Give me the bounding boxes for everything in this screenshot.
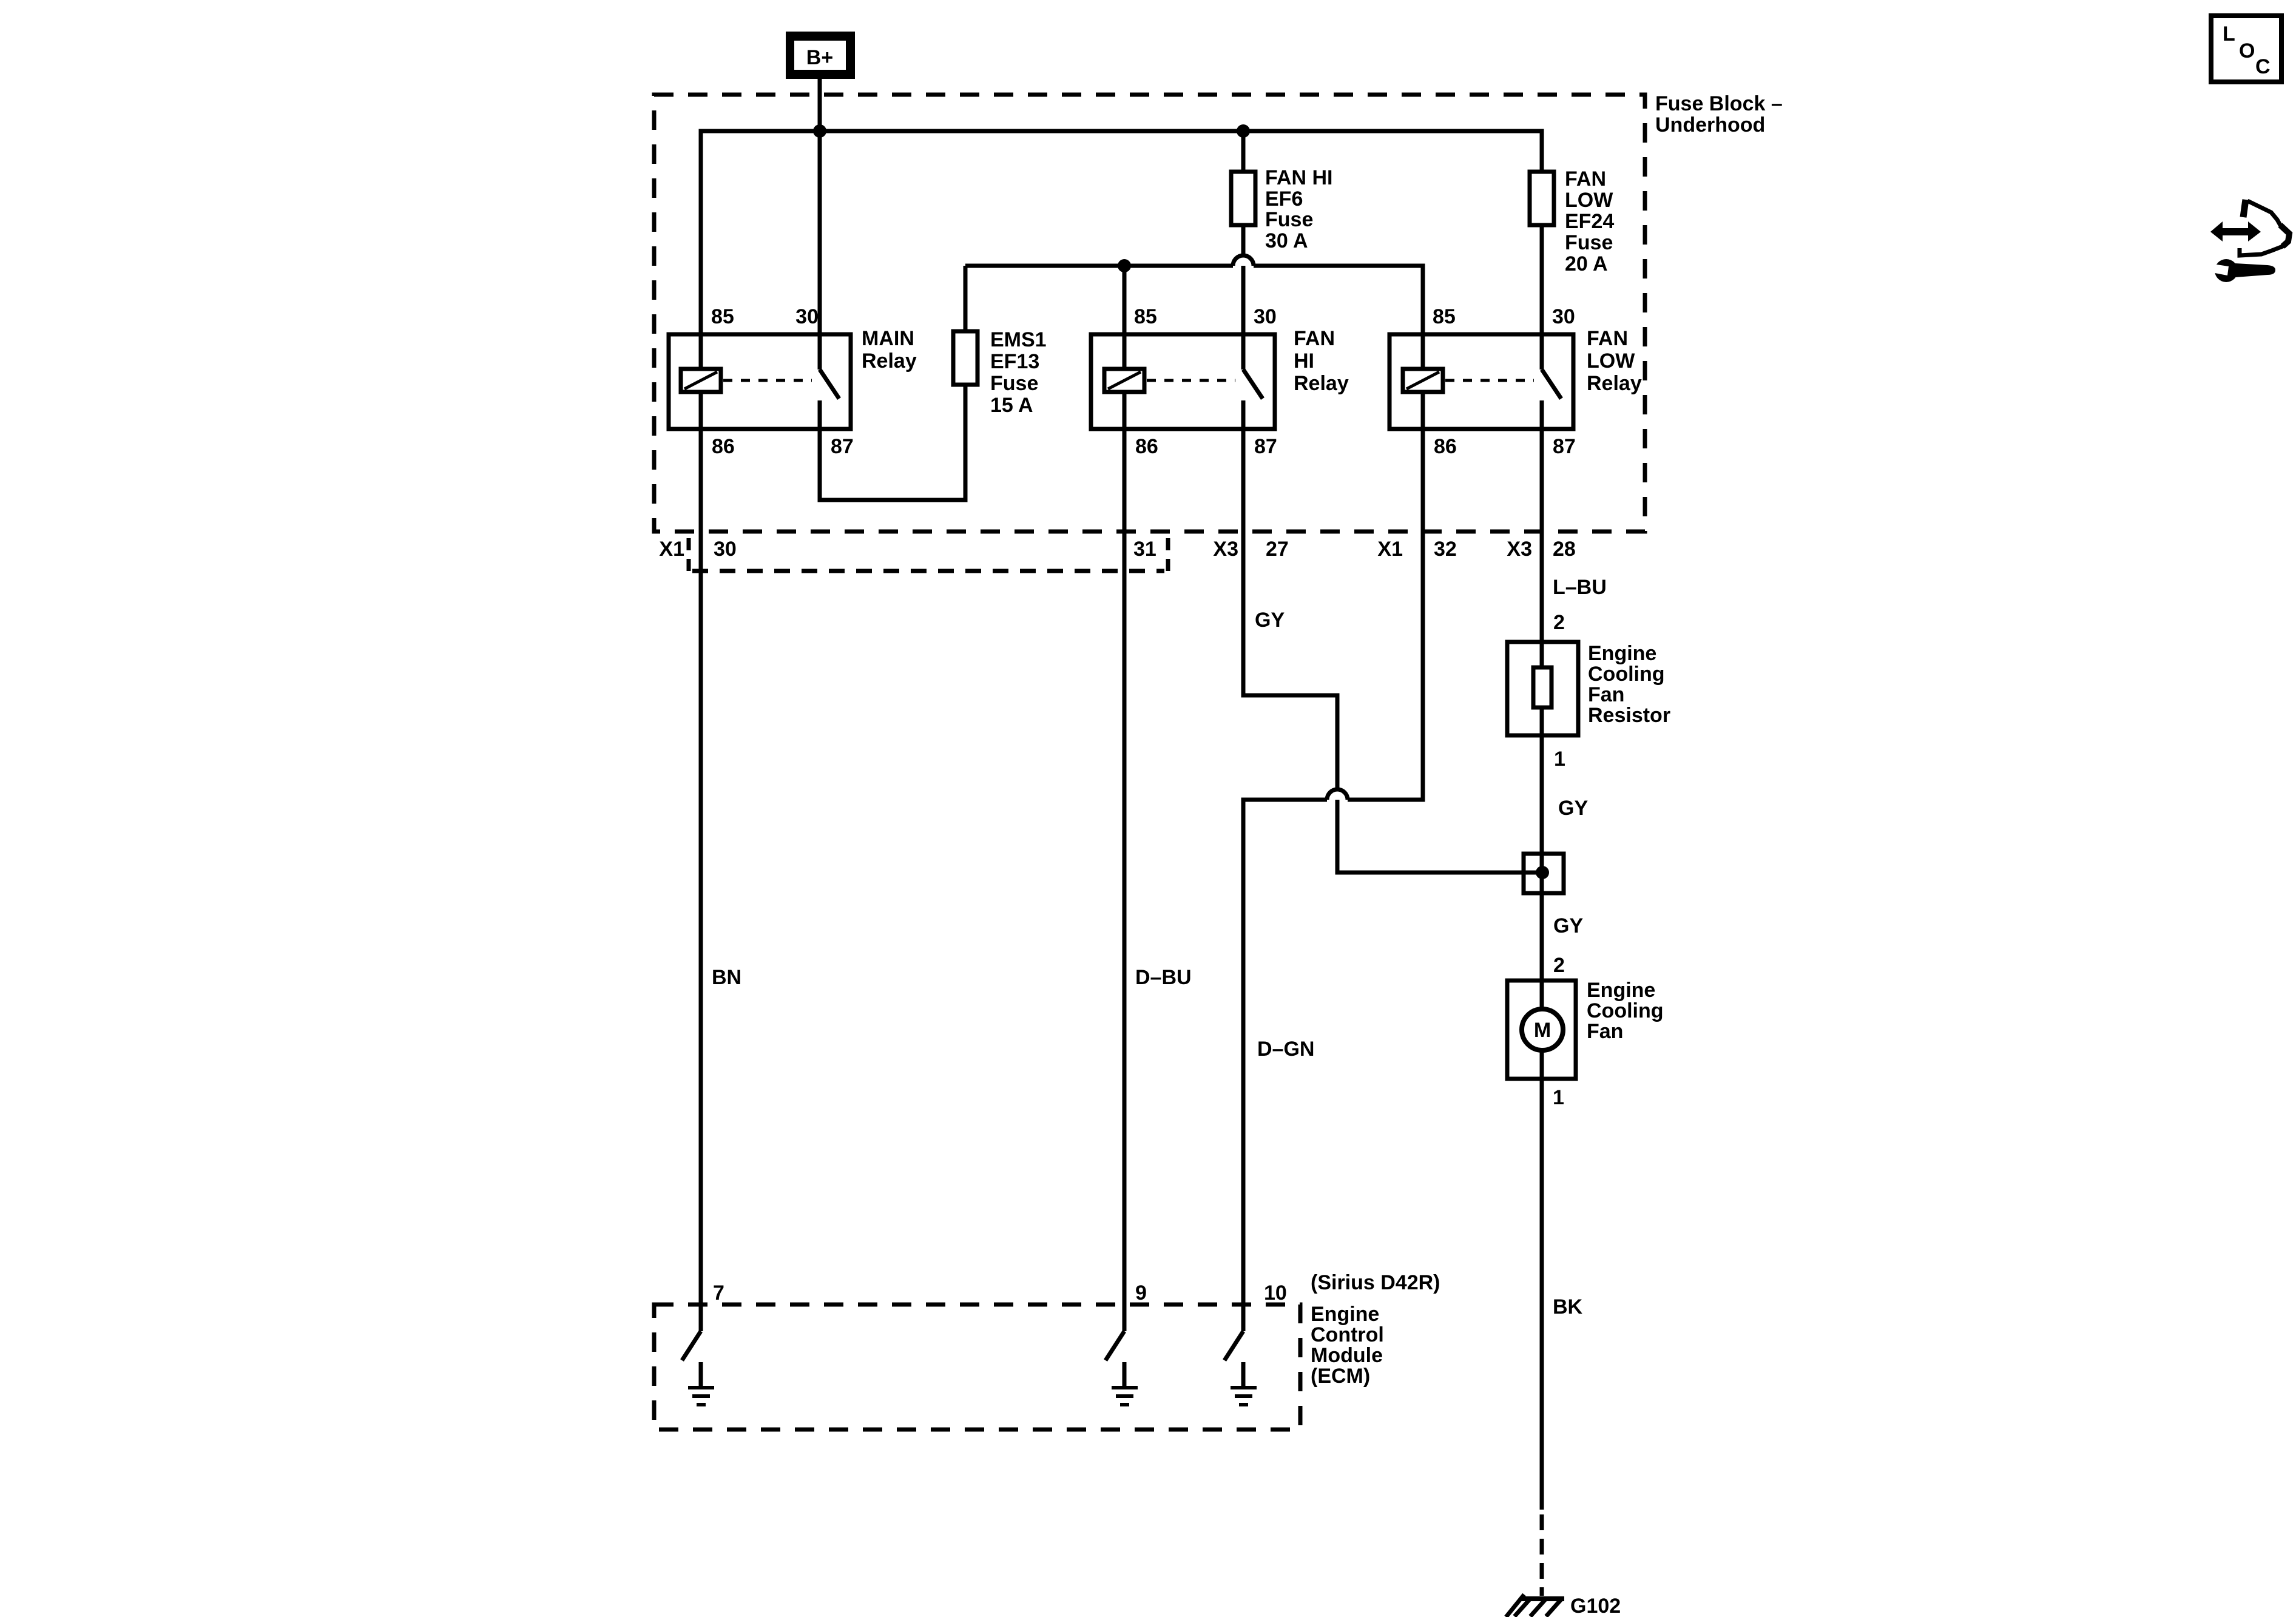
svg-text:30: 30 (714, 538, 737, 561)
svg-text:2: 2 (1553, 954, 1565, 977)
svg-text:Relay: Relay (1294, 372, 1349, 395)
wire main B+ bus with corners (701, 131, 1542, 369)
svg-text:X3: X3 (1507, 538, 1532, 561)
relay FAN HI box (1091, 334, 1275, 429)
node junction dot at B+ bus (813, 124, 826, 138)
motor circle M (1522, 1009, 1563, 1050)
svg-text:FAN: FAN (1587, 327, 1628, 350)
svg-text:GY: GY (1553, 914, 1583, 937)
svg-text:87: 87 (831, 435, 854, 458)
svg-text:LOW: LOW (1565, 189, 1613, 212)
wire fuse FAN HI feed from bus (1241, 131, 1246, 172)
svg-text:FAN: FAN (1294, 327, 1335, 350)
relay FAN HI coil (1104, 369, 1144, 392)
svg-text:20 A: 20 A (1565, 252, 1608, 275)
svg-text:FAN: FAN (1565, 167, 1606, 191)
splice connector box (1524, 854, 1564, 893)
svg-text:Underhood: Underhood (1655, 113, 1765, 137)
resistor element inside resistor box (1533, 667, 1551, 707)
wire B+ stem (818, 79, 822, 131)
svg-text:(ECM): (ECM) (1311, 1365, 1370, 1388)
svg-text:32: 32 (1434, 538, 1457, 561)
ECM internal switch and ground pin 10 (1224, 1331, 1257, 1405)
svg-text:Fan: Fan (1588, 683, 1624, 706)
svg-text:Relay: Relay (1587, 372, 1642, 395)
svg-text:L–BU: L–BU (1553, 576, 1607, 599)
svg-text:1: 1 (1554, 748, 1565, 771)
wire MAIN relay coil 85/86 line (BN to ECM pin 7) (699, 392, 703, 1331)
svg-text:30: 30 (795, 305, 819, 328)
svg-text:C: C (2255, 55, 2271, 78)
Engine Cooling Fan motor box (1507, 981, 1576, 1079)
svg-text:GY: GY (1558, 797, 1588, 820)
svg-text:30 A: 30 A (1265, 229, 1308, 252)
switch blade MAIN relay (820, 370, 839, 399)
wire coil feed rail y438 with hop over FAN HI line (965, 255, 1423, 369)
svg-text:30: 30 (1254, 305, 1277, 328)
svg-text:Fuse: Fuse (990, 372, 1038, 395)
svg-text:HI: HI (1294, 349, 1314, 373)
svg-text:Engine: Engine (1587, 979, 1655, 1002)
svg-text:Fuse Block –: Fuse Block – (1655, 92, 1783, 115)
relay FAN LOW coil (1403, 369, 1443, 392)
svg-text:86: 86 (712, 435, 735, 458)
svg-text:Cooling: Cooling (1587, 999, 1664, 1022)
svg-text:B+: B+ (806, 46, 833, 69)
relay FAN LOW coil-switch linkage dashes (1445, 379, 1534, 382)
outline arrow of tool icon (2243, 200, 2246, 217)
wire motor to ground BK solid part (1540, 1050, 1544, 1510)
svg-text:BN: BN (712, 966, 741, 989)
svg-text:BK: BK (1553, 1295, 1583, 1318)
svg-text:86: 86 (1135, 435, 1158, 458)
node junction dot bus to FAN HI fuse (1237, 124, 1250, 138)
svg-text:15 A: 15 A (990, 394, 1033, 417)
ECM internal switch and ground pin 7 (682, 1331, 714, 1405)
ground chassis G102 symbol (1506, 1595, 1564, 1617)
double headed arrow of tool icon (2210, 221, 2261, 241)
wire MAIN relay 87 to EMS1 fuse (820, 385, 965, 500)
wire MAIN relay pin30 drop (818, 131, 822, 370)
fuse FAN HI EF6 symbol (1231, 172, 1255, 225)
svg-text:(Sirius D42R): (Sirius D42R) (1311, 1271, 1440, 1294)
svg-text:27: 27 (1266, 538, 1289, 561)
svg-text:31: 31 (1133, 538, 1156, 561)
svg-text:X3: X3 (1213, 538, 1238, 561)
svg-text:Relay: Relay (862, 349, 917, 373)
svg-text:GY: GY (1255, 609, 1285, 632)
wire FAN HI relay 86 line (D-BU to ECM pin 9) (1123, 392, 1127, 1331)
fuse FAN LOW EF24 symbol (1530, 172, 1554, 225)
relay FAN HI coil-switch linkage dashes (1147, 379, 1235, 382)
wire FAN LOW fuse to relay 30 (1540, 225, 1544, 370)
svg-text:M: M (1534, 1019, 1551, 1042)
svg-text:2: 2 (1553, 611, 1565, 634)
node splice junction dot (1536, 866, 1549, 879)
svg-text:G102: G102 (1570, 1595, 1621, 1617)
svg-text:1: 1 (1553, 1086, 1564, 1109)
svg-text:L: L (2223, 22, 2235, 46)
wire FAN HI fuse to relay 30 (gap at hop) (1241, 225, 1246, 370)
wrench of tool icon (2215, 259, 2238, 282)
switch blade FAN HI relay (1243, 370, 1263, 399)
svg-text:Fuse: Fuse (1565, 231, 1613, 254)
fuse EMS1 EF13 symbol (953, 331, 977, 385)
svg-text:X1: X1 (659, 538, 684, 561)
wire FAN HI relay 85 coil feed (1123, 266, 1127, 369)
svg-text:85: 85 (1134, 305, 1157, 328)
svg-text:7: 7 (713, 1281, 724, 1305)
wire BK dashed part (1540, 1514, 1544, 1596)
relay FAN LOW box (1389, 334, 1573, 429)
svg-text:X1: X1 (1377, 538, 1403, 561)
svg-text:D–GN: D–GN (1257, 1038, 1314, 1061)
svg-text:Module: Module (1311, 1344, 1383, 1367)
svg-text:EF13: EF13 (990, 350, 1039, 373)
svg-text:O: O (2239, 39, 2255, 62)
svg-text:Engine: Engine (1588, 642, 1656, 665)
svg-text:EF6: EF6 (1265, 187, 1303, 211)
wire EMS1 fuse top to coil feed line (964, 266, 968, 331)
svg-text:9: 9 (1135, 1281, 1147, 1305)
svg-text:FAN HI: FAN HI (1265, 166, 1332, 189)
Engine Cooling Fan Resistor box (1507, 642, 1578, 735)
svg-text:Fan: Fan (1587, 1020, 1623, 1043)
LOC reference box icon (2211, 16, 2281, 82)
ECM dashed enclosure (654, 1305, 1300, 1430)
svg-text:MAIN: MAIN (862, 327, 914, 350)
interactive tool icon (double arrow, outline arrow, wrench) (2209, 200, 2289, 282)
node junction dot rail to FAN HI 85 (1118, 259, 1131, 272)
svg-text:85: 85 (1433, 305, 1456, 328)
switch blade FAN LOW relay (1542, 370, 1561, 399)
svg-text:87: 87 (1254, 435, 1277, 458)
svg-text:EMS1: EMS1 (990, 328, 1047, 351)
svg-text:Cooling: Cooling (1588, 663, 1665, 686)
svg-text:D–BU: D–BU (1135, 966, 1192, 989)
relay MAIN coil (681, 369, 721, 392)
svg-text:87: 87 (1553, 435, 1576, 458)
B+ power terminal (786, 32, 855, 79)
relay MAIN box (669, 334, 851, 429)
relay MAIN coil-switch linkage dashes (723, 379, 812, 382)
svg-text:Engine: Engine (1311, 1303, 1379, 1326)
svg-text:Resistor: Resistor (1588, 704, 1670, 727)
svg-text:85: 85 (711, 305, 734, 328)
Fuse Block - Underhood dashed enclosure (654, 95, 1645, 532)
wire FAN HI relay 87 GY jog to splice (1243, 400, 1542, 873)
wire FAN LOW relay 87 L-BU down through resistor to motor (1540, 400, 1544, 1009)
svg-text:EF24: EF24 (1565, 210, 1614, 233)
wire FAN LOW relay 86 D-GN jog with hop to ECM pin 10 (1243, 392, 1423, 1331)
svg-text:Fuse: Fuse (1265, 208, 1313, 231)
svg-text:Control: Control (1311, 1323, 1384, 1346)
svg-text:30: 30 (1552, 305, 1575, 328)
svg-text:86: 86 (1434, 435, 1457, 458)
svg-text:10: 10 (1264, 1281, 1287, 1305)
connector X1 dashed sub-box (pins 30,31) (687, 538, 691, 571)
ECM internal switch and ground pin 9 (1106, 1331, 1138, 1405)
svg-text:LOW: LOW (1587, 349, 1635, 373)
svg-text:28: 28 (1553, 538, 1576, 561)
